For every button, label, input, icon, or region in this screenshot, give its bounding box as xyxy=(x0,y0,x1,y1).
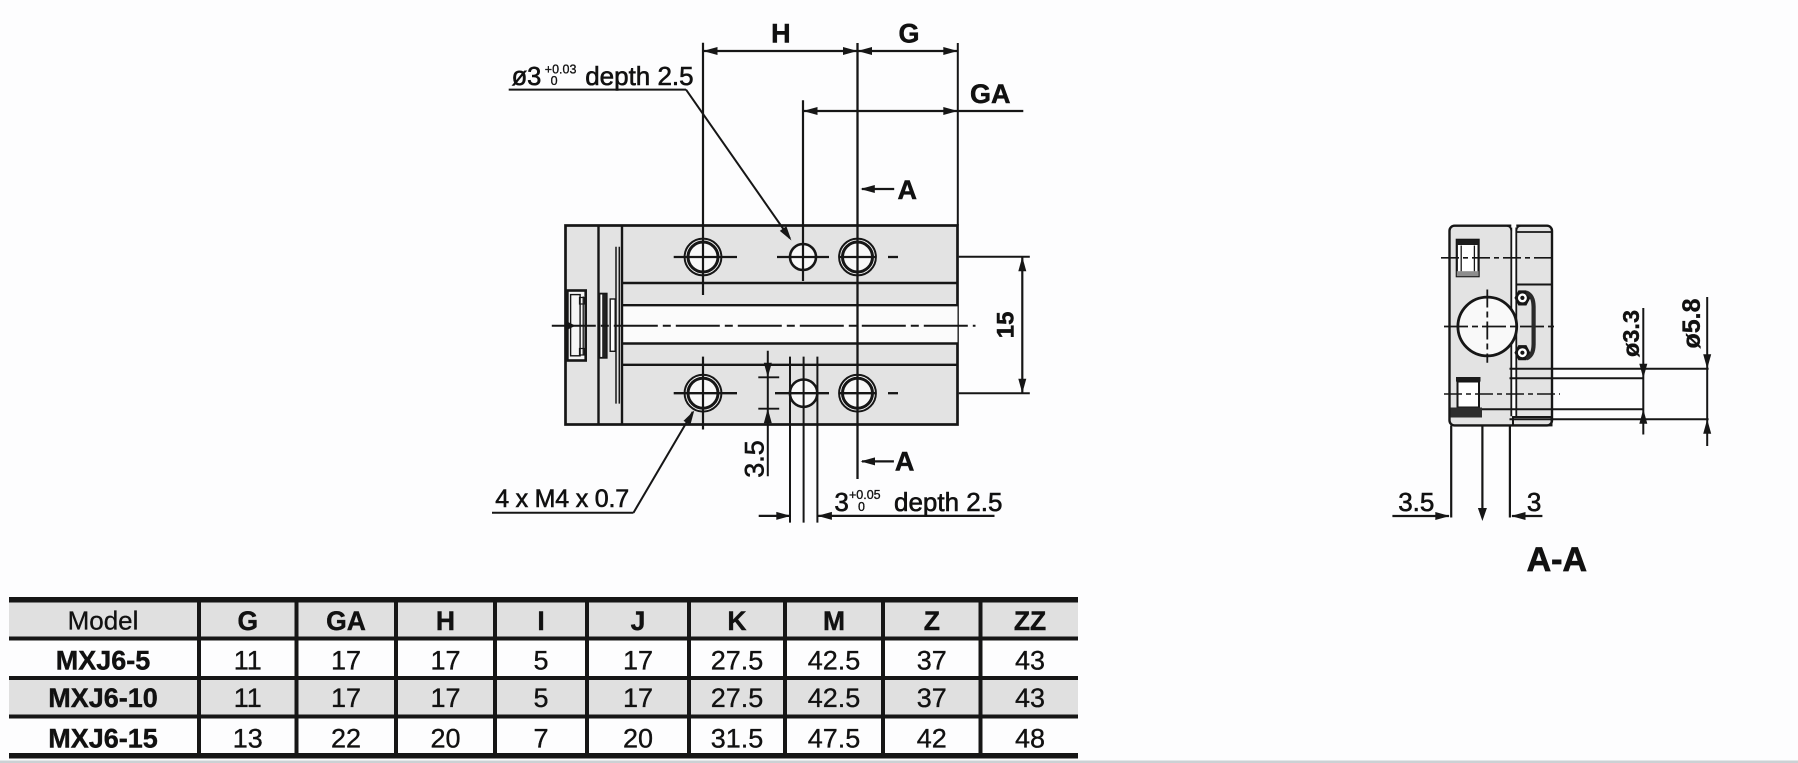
table row line 1 xyxy=(9,676,1078,680)
svg-text:27.5: 27.5 xyxy=(711,646,764,676)
rail line 3 xyxy=(622,342,958,344)
svg-text:H: H xyxy=(771,19,791,49)
screw centerline xyxy=(1441,257,1556,259)
svg-text:5: 5 xyxy=(533,646,548,676)
leader o3 depth label xyxy=(509,89,686,91)
scan artifact strip bottom xyxy=(0,761,1798,763)
svg-text:5: 5 xyxy=(533,683,548,713)
svg-text:ø3: ø3 xyxy=(512,63,542,91)
lower bearing cavity xyxy=(1458,382,1480,408)
svg-text:MXJ6-10: MXJ6-10 xyxy=(48,683,158,713)
svg-text:ø3.3: ø3.3 xyxy=(1618,310,1644,357)
svg-text:13: 13 xyxy=(233,724,263,754)
foot step under table plate xyxy=(1513,417,1552,425)
slot hole bottom-center xyxy=(790,380,817,407)
dimension G xyxy=(858,50,958,52)
bumper bar xyxy=(600,294,607,358)
dimension o5.8 xyxy=(1706,297,1708,446)
svg-text:20: 20 xyxy=(430,724,460,754)
svg-text:A: A xyxy=(895,447,915,477)
svg-text:A: A xyxy=(898,175,918,205)
svg-text:0: 0 xyxy=(858,500,865,514)
hex socket screw cavity xyxy=(1457,240,1479,276)
shaft top line o5.8 xyxy=(1510,368,1709,370)
guide screw top xyxy=(1517,292,1528,303)
shaft line o3.3 top xyxy=(1510,377,1644,379)
retainer arc strip xyxy=(1527,293,1534,359)
svg-text:ø5.8: ø5.8 xyxy=(1678,298,1706,348)
table plate line xyxy=(1516,284,1551,286)
guide screw bottom hex flange xyxy=(1515,346,1529,359)
shaft bottom line o5.8 xyxy=(1510,418,1709,420)
main body top view (gray plate) xyxy=(566,226,958,425)
svg-text:11: 11 xyxy=(234,646,262,676)
svg-text:Model: Model xyxy=(68,606,139,636)
section arrow A top xyxy=(862,188,894,190)
svg-text:17: 17 xyxy=(331,646,361,676)
stroke adjuster bracket xyxy=(567,291,585,361)
lower centerline xyxy=(1444,393,1560,395)
M4 thread hole top-left xyxy=(685,239,722,276)
dimension 3 depth 2.5 xyxy=(759,515,791,517)
dimension H xyxy=(703,50,858,52)
svg-text:3.5: 3.5 xyxy=(739,440,769,478)
svg-text:48: 48 xyxy=(1015,724,1045,754)
dimension GA xyxy=(803,110,1023,112)
dimension 3.5 leg xyxy=(1392,515,1449,517)
crosshair bottom-left hole xyxy=(674,392,737,394)
svg-text:A-A: A-A xyxy=(1527,541,1587,579)
slot centerline and tangent lines xyxy=(775,392,829,394)
leg left line xyxy=(1450,425,1452,517)
leg middle line xyxy=(1481,425,1483,517)
svg-text:31.5: 31.5 xyxy=(711,724,764,754)
svg-text:G: G xyxy=(898,19,919,49)
lower bearing dark band top xyxy=(1456,377,1481,382)
end plate line xyxy=(597,226,599,425)
dimension 3.5 slot xyxy=(767,351,769,477)
table column separators xyxy=(197,597,201,759)
extension line right xyxy=(957,43,959,226)
svg-text:4 x M4 x 0.7: 4 x M4 x 0.7 xyxy=(495,485,629,513)
section arrow A bottom xyxy=(862,460,894,462)
M4 thread hole bottom-left xyxy=(685,375,722,412)
section line A-A vertical xyxy=(856,43,858,479)
svg-text:MXJ6-15: MXJ6-15 xyxy=(48,724,158,754)
svg-text:depth 2.5: depth 2.5 xyxy=(585,61,693,91)
svg-text:17: 17 xyxy=(430,683,460,713)
svg-text:+0.03: +0.03 xyxy=(545,63,577,77)
svg-text:depth 2.5: depth 2.5 xyxy=(894,487,1002,517)
svg-text:J: J xyxy=(631,606,646,636)
table row line 2 xyxy=(9,715,1078,719)
slot gap between body and table plate xyxy=(1511,224,1516,417)
svg-text:H: H xyxy=(436,606,455,636)
rail plate double edge xyxy=(615,247,617,404)
table header gray band xyxy=(9,603,1078,637)
slot length ticks xyxy=(758,376,779,378)
guide screw bottom xyxy=(1517,347,1528,358)
guide screw top hex flange xyxy=(1515,291,1529,304)
svg-text:17: 17 xyxy=(430,646,460,676)
white guide rail band xyxy=(622,305,958,343)
piston bore circle xyxy=(1458,297,1517,356)
rail line 2 xyxy=(622,304,958,306)
lower bearing dark band bottom xyxy=(1451,408,1483,418)
center hole o3 top xyxy=(790,244,816,270)
shaft line o3.3 bottom xyxy=(1482,408,1644,410)
svg-text:MXJ6-5: MXJ6-5 xyxy=(56,646,151,676)
svg-text:GA: GA xyxy=(326,606,366,636)
svg-text:7: 7 xyxy=(533,724,548,754)
svg-text:27.5: 27.5 xyxy=(711,683,764,713)
svg-text:GA: GA xyxy=(970,79,1011,109)
bore crosshair xyxy=(1444,326,1557,328)
svg-text:M: M xyxy=(823,606,845,636)
svg-text:0: 0 xyxy=(551,74,558,88)
table plate edge line xyxy=(621,226,623,425)
svg-text:3.5: 3.5 xyxy=(1398,487,1434,517)
bracket notch bottom xyxy=(580,349,585,356)
rail line 4 xyxy=(622,364,958,366)
svg-text:37: 37 xyxy=(917,646,947,676)
table header underline xyxy=(9,637,1078,641)
svg-text:42.5: 42.5 xyxy=(808,683,861,713)
crosshair top-left hole xyxy=(674,256,737,258)
svg-text:17: 17 xyxy=(623,683,653,713)
svg-text:ZZ: ZZ xyxy=(1014,606,1046,636)
svg-text:42: 42 xyxy=(917,724,947,754)
svg-text:47.5: 47.5 xyxy=(808,724,861,754)
svg-text:17: 17 xyxy=(331,683,361,713)
crosshair top-right hole xyxy=(840,256,877,258)
svg-text:3: 3 xyxy=(834,487,848,517)
svg-text:20: 20 xyxy=(623,724,653,754)
svg-text:I: I xyxy=(537,606,544,636)
bumper plate thin xyxy=(610,299,615,351)
section A-A body block xyxy=(1450,226,1553,426)
bracket notch top xyxy=(580,298,585,305)
svg-text:15: 15 xyxy=(992,312,1019,339)
table bottom border xyxy=(9,753,1078,759)
svg-text:K: K xyxy=(727,606,746,636)
M4 thread hole top-right xyxy=(839,239,876,276)
svg-text:3: 3 xyxy=(1527,487,1541,517)
rail line 1 xyxy=(622,282,958,284)
main centerline xyxy=(552,325,976,327)
svg-text:17: 17 xyxy=(623,646,653,676)
crosshair bottom-right hole xyxy=(840,392,877,394)
dimension o3.3 xyxy=(1642,308,1644,435)
svg-text:43: 43 xyxy=(1015,683,1045,713)
svg-text:G: G xyxy=(237,606,258,636)
svg-text:11: 11 xyxy=(234,683,262,713)
M4 thread hole bottom-right xyxy=(839,375,876,412)
crosshair o3 hole xyxy=(777,256,829,258)
table row MXJ6-10 gray band xyxy=(9,680,1078,715)
svg-text:22: 22 xyxy=(331,724,361,754)
table top border xyxy=(9,597,1078,603)
table plate top double line xyxy=(1516,231,1551,233)
svg-text:42.5: 42.5 xyxy=(808,646,861,676)
rod tip wedge xyxy=(567,321,576,330)
svg-text:37: 37 xyxy=(917,683,947,713)
dimension 15 xyxy=(959,256,1030,258)
svg-text:43: 43 xyxy=(1015,646,1045,676)
leg right line xyxy=(1509,425,1511,517)
leader 4 x M4 x 0.7 label xyxy=(492,512,634,514)
svg-text:Z: Z xyxy=(924,606,940,636)
